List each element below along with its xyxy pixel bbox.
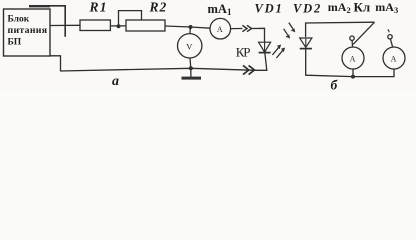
svg-text:VD1: VD1: [255, 1, 284, 15]
voltmeter V: [178, 34, 202, 58]
resistor R2: [126, 20, 165, 31]
connector bottom >>: [243, 65, 254, 74]
svg-text:V: V: [186, 41, 193, 51]
svg-text:R2: R2: [149, 0, 168, 15]
svg-text:КР: КР: [236, 44, 250, 59]
svg-text:mA1: mA1: [208, 2, 232, 17]
svg-text:а: а: [112, 74, 119, 89]
svg-text:VD2: VD2: [293, 1, 322, 15]
wire БП output top: [50, 24, 80, 26]
photodiode VD2: [300, 38, 312, 47]
wire VD2 cathode to rail: [306, 49, 353, 77]
svg-text:A: A: [391, 54, 397, 63]
svg-text:Блок: Блок: [8, 14, 30, 24]
connector top >>: [242, 25, 251, 31]
svg-text:mA3: mA3: [375, 0, 398, 15]
wire contact to mA2: [351, 40, 353, 46]
wire bottom rail: [60, 68, 256, 71]
connector bar (cropped figure remnant): [29, 6, 65, 37]
wire mA2 bottom: [352, 69, 354, 77]
wire right rail: [353, 69, 394, 77]
svg-text:БП: БП: [8, 37, 22, 47]
svg-text:R1: R1: [89, 0, 108, 15]
wire voltmeter top: [189, 27, 192, 34]
switch contact left: [350, 36, 354, 40]
switch contact right: [388, 35, 392, 39]
node voltmeter tap: [189, 25, 193, 29]
node right rail junction: [351, 75, 355, 79]
wire contact to mA3: [390, 39, 392, 47]
node junction R1-R2: [117, 24, 121, 28]
ground: [190, 68, 192, 77]
wire БП output bottom: [50, 56, 61, 71]
wire mA1 to connector: [231, 28, 243, 30]
svg-text:Кл: Кл: [354, 0, 371, 14]
switch Кл blade: [353, 22, 374, 44]
node ground junction: [189, 66, 193, 70]
wire R1 to R2: [110, 25, 126, 27]
ammeter mA3: [383, 47, 405, 69]
ammeter mA2: [342, 47, 364, 69]
ammeter mA1: [210, 18, 231, 39]
wire VD2 anode top: [306, 22, 375, 37]
wire R2 wiper tap: [119, 11, 142, 26]
wire VD1 cathode to connector: [255, 53, 267, 71]
resistor R1: [80, 20, 110, 31]
svg-text:A: A: [217, 25, 223, 34]
svg-text:б: б: [331, 78, 339, 93]
wire R2 to mA1: [165, 26, 210, 28]
svg-text:A: A: [350, 54, 356, 63]
LED VD1: [259, 42, 271, 52]
svg-text:mA2: mA2: [328, 0, 351, 15]
wire connector to VD1: [252, 28, 265, 42]
power supply block БП: [4, 9, 51, 56]
wire voltmeter bottom: [189, 58, 192, 68]
svg-text:питания: питания: [8, 25, 48, 36]
